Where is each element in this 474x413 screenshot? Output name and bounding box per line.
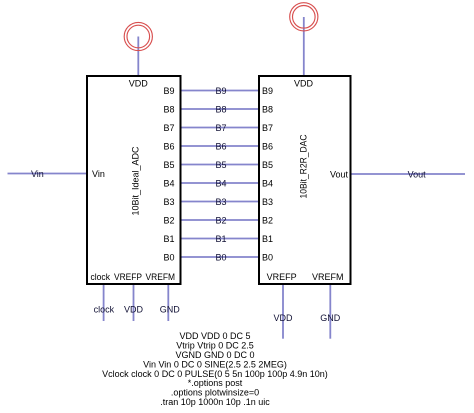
svg-text:B9: B9 [163,86,174,96]
svg-text:B1: B1 [215,234,226,244]
svg-text:VREFM: VREFM [312,272,344,282]
svg-text:VREFP: VREFP [114,272,142,282]
svg-text:VDD: VDD [129,79,149,89]
wire B1 [181,238,260,240]
svg-text:B2: B2 [262,215,273,225]
wire B6 [181,145,260,147]
svg-text:B4: B4 [262,178,273,188]
svg-text:B6: B6 [163,141,174,151]
svg-text:B7: B7 [215,123,226,133]
wire Vin [8,173,88,175]
wire B5 [181,164,260,166]
svg-text:10Bit_R2R_DAC: 10Bit_R2R_DAC [298,134,308,198]
svg-text:B1: B1 [262,234,273,244]
block U1 10Bit_Ideal_ADC [87,76,181,284]
VDD supply symbol right [290,3,318,31]
svg-text:B3: B3 [215,197,226,207]
svg-text:B0: B0 [163,252,174,262]
svg-text:Vout: Vout [408,169,427,179]
svg-text:VDD: VDD [273,313,293,323]
svg-text:B9: B9 [215,86,226,96]
svg-text:Vin: Vin [92,169,105,179]
svg-text:Vin: Vin [31,169,44,179]
wire B3 [181,201,260,203]
wire ADC VREFM to GND [167,284,169,321]
wire clock stub [103,284,105,321]
svg-text:B8: B8 [215,104,226,114]
svg-text:B6: B6 [215,141,226,151]
wire Vout [351,173,466,175]
wire B4 [181,182,260,184]
svg-text:clock: clock [91,272,111,282]
svg-text:.tran 10p 1000n 10p .1n uic: .tran 10p 1000n 10p .1n uic [160,397,270,407]
wire B9 [181,90,260,92]
svg-text:B3: B3 [163,197,174,207]
wire VDD supply to DAC [303,17,305,76]
svg-text:B2: B2 [215,215,226,225]
svg-text:B5: B5 [215,160,226,170]
svg-text:GND: GND [160,304,181,314]
svg-text:B9: B9 [262,86,273,96]
svg-text:VREFM: VREFM [146,272,176,282]
svg-text:B0: B0 [215,252,226,262]
svg-text:B5: B5 [262,160,273,170]
svg-text:VREFP: VREFP [267,272,297,282]
svg-text:B3: B3 [262,197,273,207]
svg-text:B0: B0 [262,252,273,262]
svg-text:B8: B8 [163,104,174,114]
svg-text:10Bit_Ideal_ADC: 10Bit_Ideal_ADC [130,146,140,216]
wire DAC VREFM to GND [329,284,331,339]
svg-text:B4: B4 [163,178,174,188]
svg-text:B7: B7 [163,123,174,133]
svg-text:B6: B6 [262,141,273,151]
svg-text:B8: B8 [262,104,273,114]
wire B0 [181,256,260,258]
wire DAC VREFP to VDD [282,284,284,339]
block U2 10Bit_R2R_DAC [259,76,351,284]
svg-text:B1: B1 [163,234,174,244]
svg-text:GND: GND [320,313,341,323]
svg-text:B7: B7 [262,123,273,133]
wire ADC VREFP to VDD [133,284,135,321]
wire VDD supply to ADC [137,37,139,77]
wire B7 [181,127,260,129]
wire B8 [181,108,260,110]
svg-text:clock: clock [94,304,115,314]
svg-text:B2: B2 [163,215,174,225]
svg-text:B4: B4 [215,178,226,188]
svg-text:Vout: Vout [330,169,349,179]
VDD supply symbol left [124,22,152,50]
svg-text:VDD: VDD [124,304,144,314]
svg-text:B5: B5 [163,160,174,170]
wire B2 [181,219,260,221]
svg-text:VDD: VDD [294,79,314,89]
